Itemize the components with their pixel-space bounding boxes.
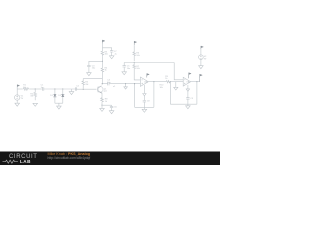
ground tap on input row: [71, 89, 73, 92]
svg-text:10k: 10k: [105, 54, 109, 56]
resistor R1: [22, 85, 30, 91]
wire collector to C4: [102, 83, 107, 85]
node diode right: [62, 88, 63, 89]
capacitor C7 supply bypass: [110, 51, 118, 56]
capacitor C3: [87, 65, 96, 72]
capacitor C9 in fb box 2: [186, 91, 194, 104]
svg-text:1k: 1k: [105, 70, 108, 72]
net flag input node: [17, 85, 19, 88]
ground under fb box 2: [186, 104, 191, 109]
banner url: [48, 157, 91, 161]
svg-text:.1u: .1u: [114, 54, 118, 56]
svg-text:C9: C9: [190, 98, 194, 100]
op-amp OA1: [140, 77, 149, 86]
svg-text:1k: 1k: [105, 101, 108, 103]
wire C4 to opamp: [110, 83, 140, 85]
svg-text:10k: 10k: [160, 87, 164, 89]
wire diode bottom: [55, 103, 63, 106]
wire V2 to ground arrow: [200, 59, 202, 65]
resistor R3: [101, 48, 109, 56]
wire OA1 output: [148, 81, 166, 83]
capacitor C1: [41, 85, 46, 91]
wire divider mid: [101, 56, 103, 66]
svg-text:10k: 10k: [136, 68, 140, 70]
wire OA2 output: [191, 81, 200, 83]
svg-text:1u: 1u: [41, 87, 44, 89]
node diode left: [54, 88, 55, 89]
svg-text:C2: C2: [76, 85, 80, 87]
ground under V1: [15, 103, 20, 106]
ground under fb box: [142, 107, 147, 112]
wire reference rail: [124, 62, 174, 64]
resistor R6: [133, 45, 141, 61]
svg-text:1M: 1M: [85, 84, 88, 86]
svg-text:C6: C6: [114, 106, 118, 108]
ground under C5: [122, 72, 127, 75]
svg-text:10u: 10u: [92, 68, 96, 70]
ground under diodes: [57, 106, 62, 109]
circuitlab logo: [9, 155, 38, 160]
ground under C7: [109, 56, 114, 59]
collector output node: [102, 83, 103, 84]
wire input row: [17, 88, 22, 90]
ground under R8: [100, 108, 105, 111]
node divider2 mid: [134, 62, 135, 63]
node divider mid: [102, 61, 103, 62]
resistor R7: [133, 63, 141, 71]
svg-text:10u: 10u: [127, 68, 131, 70]
resistor R5 collector-feedback to base: [82, 79, 89, 89]
fb box 2 bottom wire: [170, 103, 197, 105]
wire V1 to input row: [16, 87, 18, 103]
ground under C6: [109, 111, 114, 114]
node fb box left: [134, 83, 135, 84]
voltage source V1: [15, 95, 24, 100]
wire R9 to OA2 plus: [170, 81, 183, 83]
wire supply tee: [102, 43, 111, 50]
svg-text:C8: C8: [147, 101, 151, 103]
fb box left wire: [134, 84, 136, 108]
power flag V2 top: [201, 46, 203, 49]
ground arrow under V2: [199, 66, 204, 69]
voltage source V2: [199, 49, 207, 60]
node after R9: [170, 81, 171, 82]
capacitor C6 emitter bypass: [110, 105, 118, 111]
svg-text:D2: D2: [58, 95, 62, 97]
svg-text:npn: npn: [104, 91, 108, 93]
fb box right wire: [153, 82, 155, 108]
ground arrow OA2 vee: [186, 85, 189, 91]
capacitor C4 coupling: [107, 80, 111, 86]
wire to bypass cap: [102, 104, 112, 106]
diode D1: [50, 89, 56, 103]
op-amp OA2: [183, 77, 191, 86]
wire tee left to C3: [89, 61, 103, 65]
ground tap OA2 plus: [174, 82, 178, 90]
power flag VCC2: [134, 41, 136, 45]
wire: [30, 88, 41, 90]
ground under R2: [33, 103, 38, 106]
node ground tap opamp plus: [125, 83, 126, 84]
node OA1 fb: [153, 81, 154, 82]
logo zigzag wire: [3, 160, 18, 163]
fb box 2 left wire: [169, 82, 171, 105]
capacitor C2: [75, 85, 79, 90]
collector wire up: [101, 79, 102, 84]
power flag OA2: [189, 73, 191, 79]
resistor R4 collector: [101, 66, 108, 79]
wire base row: [77, 88, 97, 90]
node at R2 top: [35, 88, 36, 89]
node base resistor: [83, 89, 84, 90]
node emitter tee: [101, 105, 102, 106]
wire reference to OA2 minus: [174, 63, 183, 80]
svg-text:1k: 1k: [165, 78, 168, 80]
diode D2: [58, 89, 64, 103]
power flag VCC1: [102, 40, 104, 43]
svg-text:1V: 1V: [21, 98, 24, 100]
power flag OA1: [147, 74, 149, 78]
capacitor C8 in fb box: [143, 96, 151, 107]
svg-text:1M: 1M: [30, 96, 33, 98]
ground under C3: [87, 73, 92, 76]
svg-text:9V: 9V: [204, 58, 207, 60]
svg-text:n1: n1: [113, 86, 116, 88]
wire: [45, 88, 77, 90]
ground arrow OA1 vee: [143, 85, 146, 96]
output net flag: [200, 74, 203, 82]
capacitor C5: [123, 66, 132, 72]
transistor Q1: [97, 84, 108, 94]
emitter wire down: [100, 93, 103, 96]
wire feedback top: [83, 78, 102, 80]
fb box 2 right wire: [196, 82, 198, 105]
svg-text:10k: 10k: [136, 55, 140, 57]
fb box bottom wire: [135, 106, 154, 108]
ground on opamp plus row: [124, 84, 128, 89]
resistor R9 series: [165, 76, 170, 83]
wire emitter ground stem: [101, 105, 103, 108]
wire C5 stem: [123, 63, 125, 66]
node OA2 fb: [196, 81, 197, 82]
banner: [0, 151, 220, 165]
svg-text:D1: D1: [50, 95, 54, 97]
wire divider2 to opamp minus: [134, 71, 140, 80]
resistor R2 to ground: [30, 89, 36, 100]
banner title: [48, 153, 91, 157]
resistor R8 emitter: [101, 96, 109, 105]
